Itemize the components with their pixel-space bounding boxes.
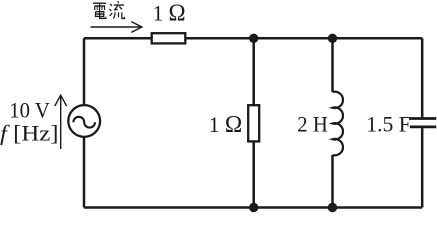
- ac source U1 circle: [68, 105, 100, 137]
- wire resistor branch: [252, 38, 255, 207]
- wire inductor branch upper: [331, 38, 334, 92]
- wire inductor branch lower: [331, 155, 334, 208]
- node top R: [249, 34, 258, 43]
- node bottom R: [249, 203, 258, 212]
- svg-text:10 V: 10 V: [9, 97, 50, 122]
- ac source sine: [73, 117, 95, 128]
- resistor R1 1ohm series: [152, 33, 186, 43]
- wire top: [84, 37, 422, 40]
- inductor L1 coil: [333, 92, 343, 156]
- svg-text:1 Ω: 1 Ω: [209, 112, 243, 138]
- current arrow: [91, 22, 142, 33]
- wire bottom: [84, 206, 422, 209]
- label kanji denryuu (current): [93, 1, 124, 18]
- capacitor C1 plates: [410, 119, 436, 127]
- svg-text:1.5 F: 1.5 F: [366, 111, 411, 136]
- node top L: [328, 34, 337, 43]
- wire left: [83, 38, 86, 207]
- wire right lower: [421, 128, 424, 207]
- svg-text:2 H: 2 H: [297, 111, 328, 136]
- svg-text:1 Ω: 1 Ω: [153, 1, 186, 27]
- resistor R2 1ohm shunt: [248, 105, 259, 141]
- node bottom L: [328, 203, 337, 212]
- wire right upper: [421, 38, 424, 117]
- source arrow: [55, 95, 67, 149]
- svg-text:f [Hz]: f [Hz]: [0, 120, 59, 145]
